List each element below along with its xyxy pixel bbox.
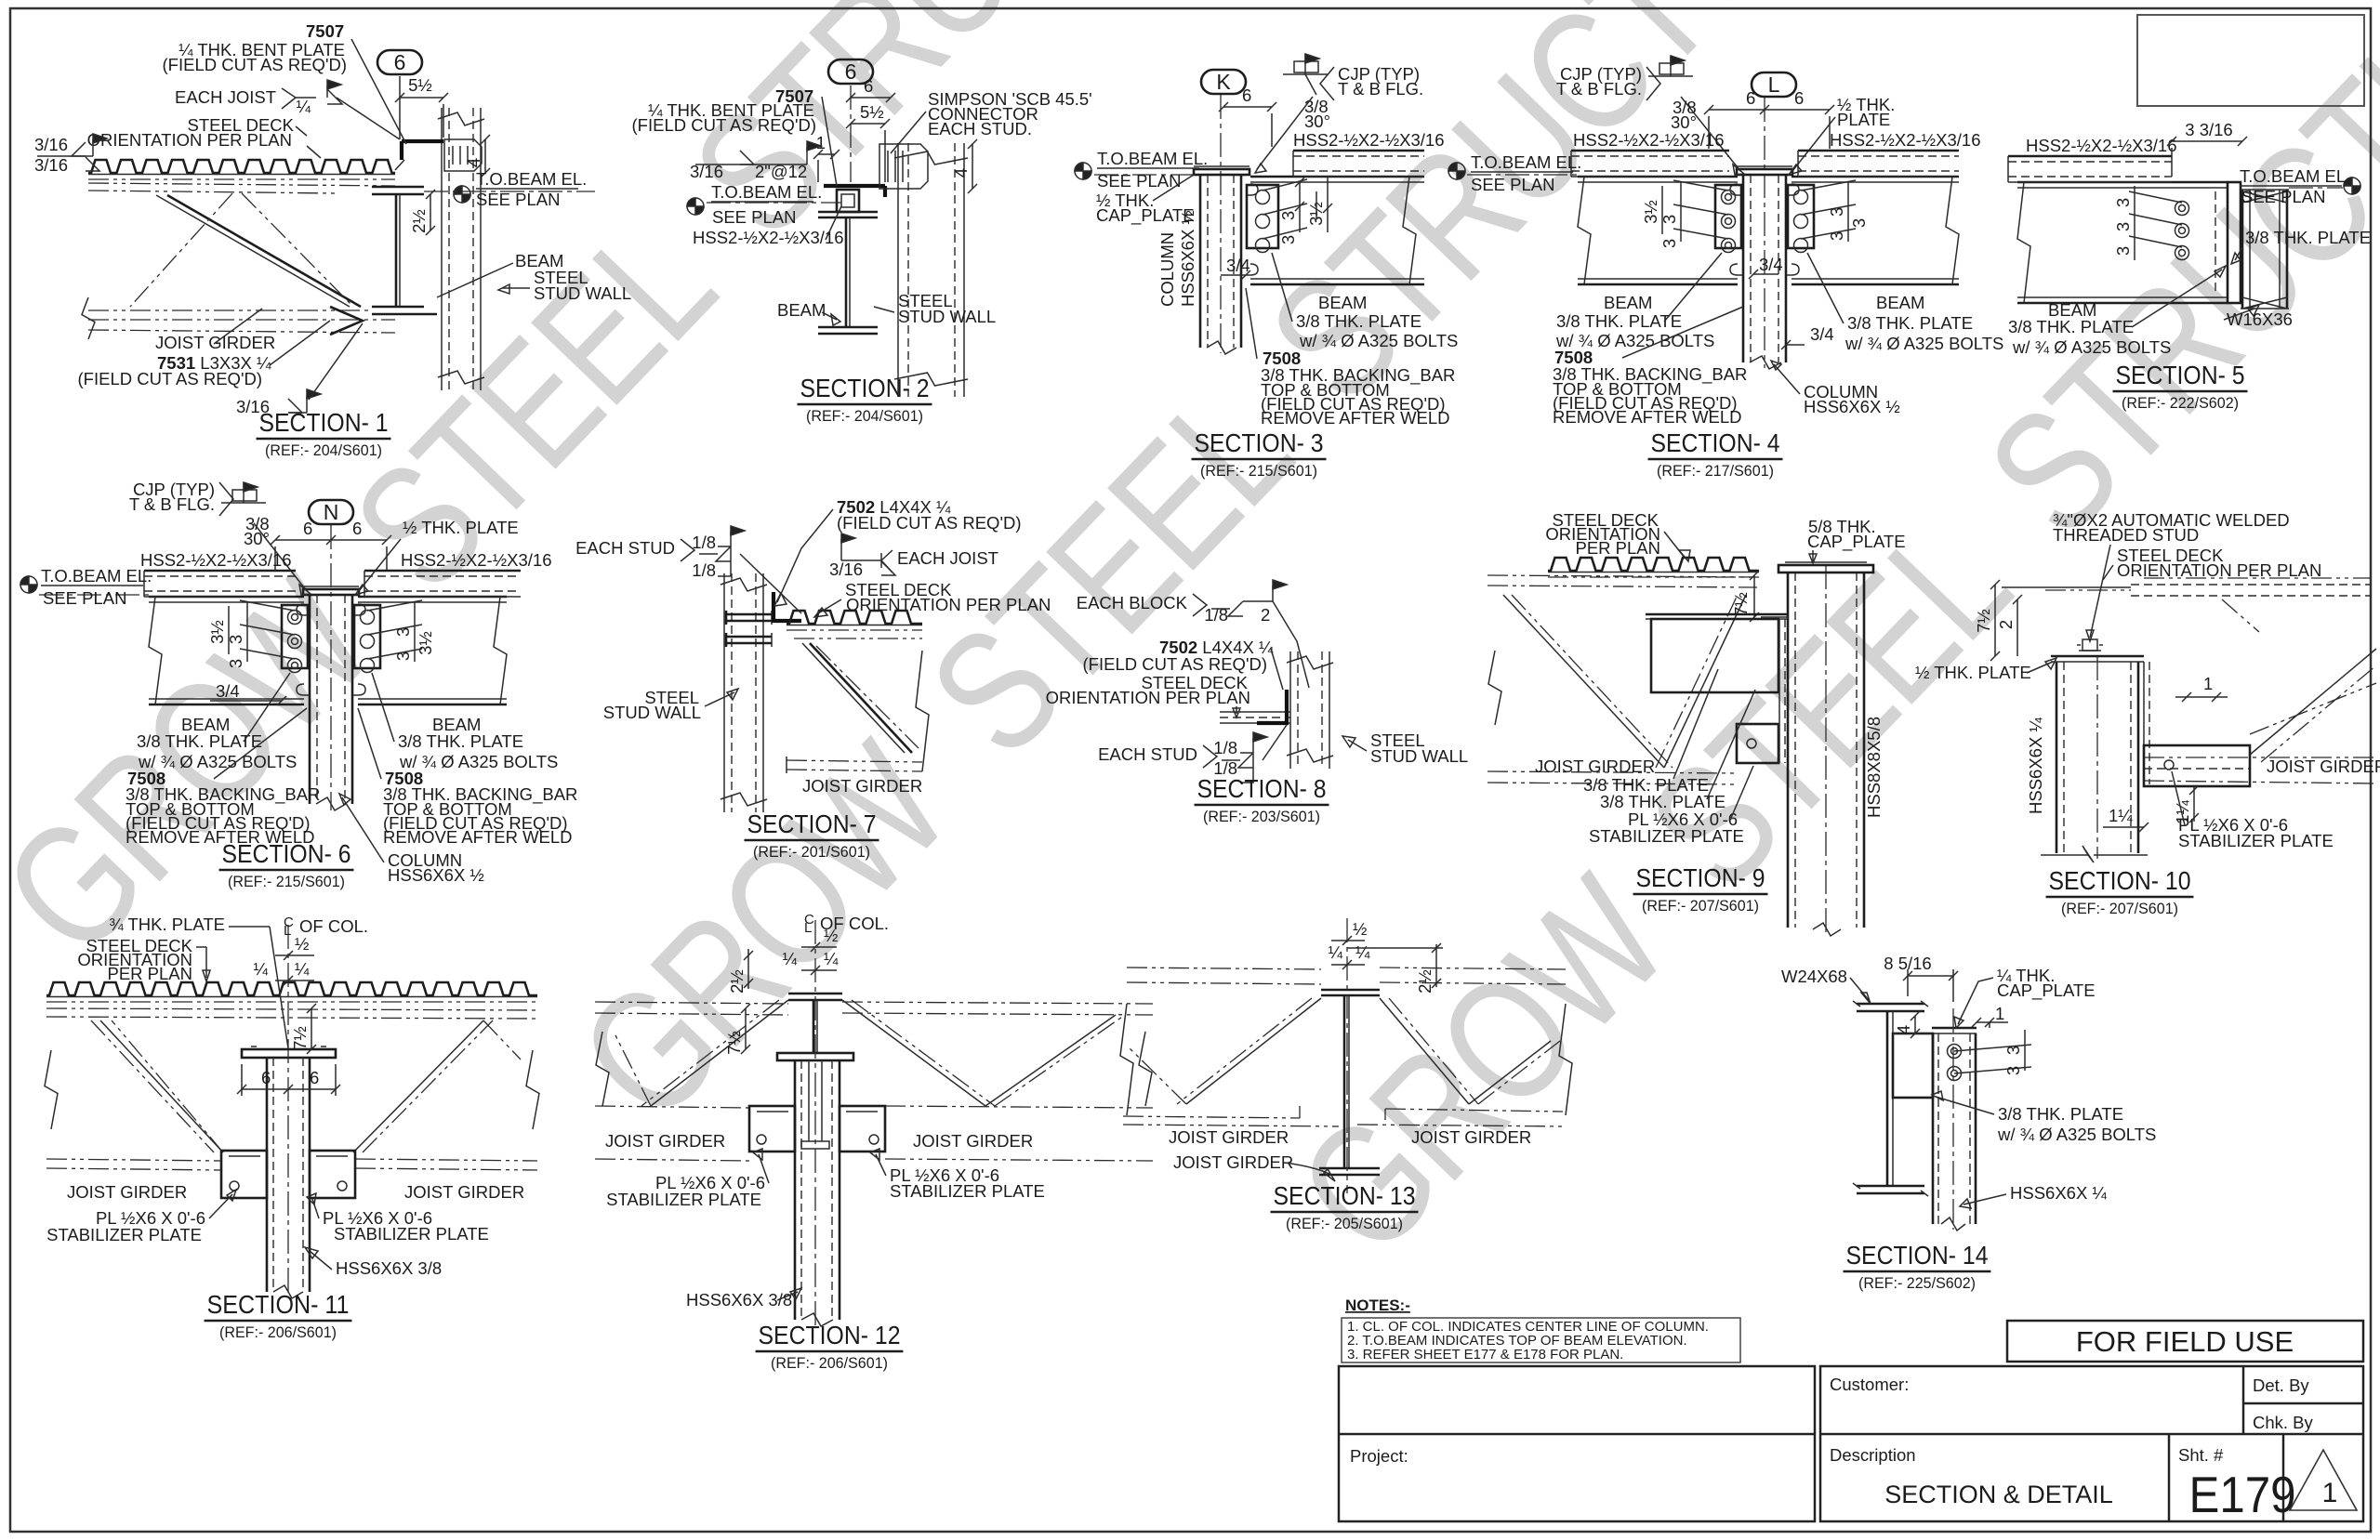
svg-text:3/4: 3/4 — [1810, 324, 1834, 344]
TO beam S2 — [687, 198, 704, 215]
svg-text:Sht. #: Sht. # — [2178, 1445, 2224, 1465]
TO beam S5 — [2344, 178, 2360, 194]
svg-text:PER PLAN: PER PLAN — [107, 964, 192, 983]
svg-text:JOIST GIRDER: JOIST GIRDER — [802, 776, 922, 796]
svg-text:SECTION- 1: SECTION- 1 — [259, 408, 389, 437]
svg-text:3. REFER SHEET E177 & E178 FOR: 3. REFER SHEET E177 & E178 FOR PLAN. — [1347, 1347, 1623, 1362]
svg-text:30°: 30° — [1304, 112, 1330, 131]
weld 2@12 S2 — [695, 164, 807, 165]
svg-text:HSS2-½X2-½X3/16: HSS2-½X2-½X3/16 — [693, 228, 843, 247]
svg-text:w/ ¾ Ø A325 BOLTS: w/ ¾ Ø A325 BOLTS — [2012, 337, 2171, 357]
svg-text:½: ½ — [295, 934, 309, 954]
svg-text:3/8 THK. PLATE: 3/8 THK. PLATE — [1556, 311, 1682, 331]
svg-text:3: 3 — [2003, 1046, 2023, 1055]
svg-text:6: 6 — [261, 1068, 271, 1087]
svg-text:HSS2-½X2-½X3/16: HSS2-½X2-½X3/16 — [401, 550, 551, 570]
dim 4 S1 — [484, 139, 486, 173]
dims 6 6 S4 — [1709, 109, 1830, 111]
svg-text:(REF:- 204/S601): (REF:- 204/S601) — [806, 407, 923, 425]
balloon K S3 — [1201, 70, 1246, 94]
svg-text:BEAM: BEAM — [777, 300, 826, 320]
steel stud wall S2 — [897, 143, 899, 397]
svg-text:Chk. By: Chk. By — [2253, 1413, 2314, 1432]
svg-text:JOIST GIRDER: JOIST GIRDER — [1535, 757, 1655, 776]
svg-text:T.O.BEAM EL.: T.O.BEAM EL. — [1097, 149, 1208, 168]
svg-text:1: 1 — [1995, 1004, 2004, 1023]
cjp weld S6 — [244, 482, 258, 492]
svg-text:2½: 2½ — [727, 969, 747, 994]
bolt plate S3 — [1247, 185, 1278, 248]
svg-text:3: 3 — [2113, 198, 2133, 207]
svg-text:HSS6X6X 3/8: HSS6X6X 3/8 — [686, 1290, 792, 1310]
svg-text:SEE PLAN: SEE PLAN — [476, 190, 561, 209]
bolt dims S4 left — [1673, 180, 1728, 191]
svg-text:REMOVE AFTER WELD: REMOVE AFTER WELD — [1261, 408, 1450, 428]
svg-text:3: 3 — [393, 627, 413, 637]
svg-text:L: L — [804, 920, 812, 936]
TO beam S3 — [1075, 163, 1091, 179]
deck S11 — [46, 982, 537, 995]
svg-text:SECTION- 6: SECTION- 6 — [222, 839, 351, 868]
svg-text:JOIST GIRDER: JOIST GIRDER — [67, 1182, 187, 1202]
svg-text:½ THK. PLATE: ½ THK. PLATE — [1915, 663, 2031, 682]
svg-text:7507: 7507 — [306, 21, 344, 41]
svg-text:T.O.BEAM EL.: T.O.BEAM EL. — [711, 182, 822, 202]
svg-text:FOR FIELD USE: FOR FIELD USE — [2076, 1325, 2294, 1358]
dims S14 — [1907, 969, 1909, 996]
hss rail S5 — [2008, 155, 2172, 158]
svg-text:SECTION- 10: SECTION- 10 — [2049, 866, 2191, 895]
svg-text:HSS2-½X2-½X3/16: HSS2-½X2-½X3/16 — [2026, 136, 2176, 155]
svg-text:STUD WALL: STUD WALL — [1370, 746, 1468, 766]
svg-text:HSS2-½X2-½X3/16: HSS2-½X2-½X3/16 — [140, 550, 291, 570]
svg-text:STUD WALL: STUD WALL — [534, 283, 631, 303]
svg-text:SECTION- 3: SECTION- 3 — [1195, 428, 1324, 457]
svg-text:BEAM: BEAM — [1604, 293, 1652, 312]
svg-text:3/8 THK. PLATE: 3/8 THK. PLATE — [2245, 228, 2371, 247]
stabilizer strip S10 — [2143, 662, 2145, 784]
svg-text:½ THK. PLATE: ½ THK. PLATE — [403, 518, 519, 537]
hss rails S6 — [144, 570, 296, 573]
bolts S14 — [1948, 1045, 1962, 1059]
svg-text:3: 3 — [2113, 246, 2133, 256]
svg-text:HSS6X6X ¼: HSS6X6X ¼ — [2010, 1183, 2107, 1203]
svg-text:3/4: 3/4 — [216, 681, 240, 701]
balloon L S4 — [1752, 72, 1796, 97]
SECTION-8 group — [1046, 580, 1469, 825]
svg-text:¼: ¼ — [1355, 942, 1370, 962]
svg-text:3/16: 3/16 — [690, 162, 723, 181]
svg-text:SECTION & DETAIL: SECTION & DETAIL — [1884, 1481, 2113, 1508]
svg-text:T.O.BEAM EL.: T.O.BEAM EL. — [1471, 152, 1581, 172]
svg-text:Det. By: Det. By — [2253, 1375, 2309, 1395]
dim 6 S3 — [1223, 106, 1272, 108]
svg-text:EACH JOIST: EACH JOIST — [175, 87, 276, 107]
deck edge S8 — [1220, 711, 1290, 713]
cap plate S3 — [1194, 169, 1249, 175]
svg-text:ORIENTATION PER PLAN: ORIENTATION PER PLAN — [846, 595, 1051, 614]
svg-text:T.O.BEAM EL.: T.O.BEAM EL. — [41, 566, 152, 586]
svg-text:1/8: 1/8 — [692, 560, 716, 580]
svg-text:THREADED STUD: THREADED STUD — [2053, 525, 2199, 545]
svg-text:JOIST GIRDER: JOIST GIRDER — [1411, 1127, 1531, 1147]
svg-text:1/8: 1/8 — [1204, 605, 1228, 625]
svg-text:HSS6X6X ¼: HSS6X6X ¼ — [2026, 717, 2045, 814]
threaded stud S10 — [2082, 639, 2097, 651]
bent plate S1 — [402, 139, 443, 143]
dim 6 S2 — [851, 97, 891, 99]
simpson connector S2 — [879, 144, 928, 189]
svg-text:3: 3 — [1849, 218, 1869, 228]
svg-text:30°: 30° — [1671, 112, 1697, 132]
svg-text:3 3/16: 3 3/16 — [2185, 120, 2232, 139]
TO beam S1 — [454, 186, 470, 203]
svg-text:1¼: 1¼ — [2109, 806, 2133, 825]
bolt plates S6 — [282, 605, 308, 668]
for field use stamp — [2007, 1321, 2363, 1362]
svg-text:3/8 THK. PLATE: 3/8 THK. PLATE — [398, 731, 523, 751]
svg-text:PLATE: PLATE — [1837, 110, 1890, 129]
SECTION-1 group — [34, 21, 631, 459]
svg-text:7½: 7½ — [724, 1031, 744, 1055]
svg-text:SECTION- 9: SECTION- 9 — [1636, 863, 1765, 892]
svg-text:3: 3 — [2113, 222, 2133, 231]
svg-text:3½: 3½ — [207, 620, 227, 644]
joist girder S7 — [794, 638, 922, 639]
svg-text:¼: ¼ — [824, 949, 839, 968]
TO beam S6 — [20, 576, 37, 593]
dim 2-1/2 S1 — [430, 194, 431, 230]
svg-text:Description: Description — [1830, 1445, 1916, 1465]
svg-text:SECTION- 14: SECTION- 14 — [1846, 1241, 1989, 1270]
svg-text:SECTION- 8: SECTION- 8 — [1197, 774, 1327, 803]
beam S3 right — [1250, 176, 1424, 178]
svg-text:Project:: Project: — [1350, 1446, 1408, 1466]
svg-text:JOIST GIRDER: JOIST GIRDER — [404, 1182, 524, 1202]
deck S9 — [1548, 558, 1759, 571]
svg-text:REMOVE AFTER WELD: REMOVE AFTER WELD — [383, 827, 573, 847]
break S1 left — [82, 297, 95, 339]
svg-text:3: 3 — [1278, 235, 1298, 244]
svg-text:6: 6 — [303, 519, 312, 538]
girder chords S12 — [595, 1002, 788, 1004]
svg-text:PER PLAN: PER PLAN — [1575, 538, 1660, 558]
girder chords S11 — [46, 1008, 537, 1010]
SECTION-5 group — [2008, 120, 2371, 412]
svg-text:E179: E179 — [2189, 1466, 2296, 1523]
svg-text:(FIELD CUT AS REQ'D): (FIELD CUT AS REQ'D) — [163, 55, 348, 74]
svg-text:(REF:- 207/S601): (REF:- 207/S601) — [2061, 900, 2178, 917]
svg-text:ORIENTATION PER PLAN: ORIENTATION PER PLAN — [87, 130, 292, 150]
svg-text:SECTION- 7: SECTION- 7 — [747, 809, 877, 838]
column S12 — [794, 1060, 797, 1320]
svg-text:w/ ¾ Ø A325 BOLTS: w/ ¾ Ø A325 BOLTS — [1844, 334, 2003, 353]
cap plate S11 — [242, 1049, 336, 1058]
svg-text:OF COL.: OF COL. — [299, 916, 368, 936]
cap plate S6 — [303, 589, 359, 595]
bolt dims S4 right — [1801, 180, 1856, 191]
svg-text:3/4: 3/4 — [1759, 255, 1783, 274]
svg-text:4: 4 — [464, 158, 483, 167]
joist girder chords S1 — [88, 183, 395, 186]
svg-text:3: 3 — [226, 659, 245, 668]
column S11 — [266, 1058, 269, 1292]
girder diagonals S11 — [100, 1020, 223, 1152]
svg-text:T & B FLG.: T & B FLG. — [129, 494, 215, 514]
weld curls S4 — [1730, 184, 1742, 195]
svg-text:1: 1 — [2322, 1478, 2338, 1508]
SECTION-14 group — [1781, 954, 2156, 1292]
svg-text:HSS2-½X2-½X3/16: HSS2-½X2-½X3/16 — [1830, 130, 1980, 150]
svg-text:3/8 THK. PLATE: 3/8 THK. PLATE — [1847, 313, 1973, 333]
svg-text:6: 6 — [1242, 86, 1251, 105]
svg-text:EACH STUD.: EACH STUD. — [928, 119, 1032, 138]
svg-text:6: 6 — [394, 50, 406, 74]
svg-text:JOIST GIRDER: JOIST GIRDER — [1169, 1127, 1289, 1147]
svg-text:1/8: 1/8 — [1213, 738, 1237, 757]
svg-text:(FIELD CUT AS REQ'D): (FIELD CUT AS REQ'D) — [837, 513, 1022, 533]
svg-text:BEAM: BEAM — [1318, 293, 1367, 312]
svg-text:(FIELD CUT AS REQ'D): (FIELD CUT AS REQ'D) — [632, 115, 817, 135]
svg-text:HSS6X6X ½: HSS6X6X ½ — [1178, 210, 1197, 307]
bolt dims S6 left — [240, 600, 295, 611]
svg-text:6: 6 — [845, 59, 857, 84]
title block — [1339, 1366, 2363, 1521]
dims S10 — [1994, 585, 1996, 656]
hss2.5 square S2 — [837, 190, 859, 212]
svg-text:3½: 3½ — [1641, 200, 1660, 224]
svg-text:3½: 3½ — [416, 631, 435, 655]
svg-text:¼: ¼ — [1329, 942, 1343, 962]
svg-text:8 5/16: 8 5/16 — [1884, 954, 1931, 973]
steel stud wall S1 — [441, 108, 443, 390]
svg-text:T.O.BEAM EL.: T.O.BEAM EL. — [476, 169, 587, 189]
svg-text:T.O.BEAM EL.: T.O.BEAM EL. — [2240, 166, 2350, 186]
svg-text:JOIST GIRDER: JOIST GIRDER — [913, 1131, 1033, 1151]
svg-text:SEE PLAN: SEE PLAN — [43, 588, 127, 608]
svg-text:7½: 7½ — [1974, 609, 1993, 633]
svg-text:¼: ¼ — [297, 97, 311, 116]
svg-text:¼: ¼ — [295, 959, 310, 979]
simpson connector S1 — [444, 139, 482, 171]
balloon 6 S1 — [377, 50, 422, 74]
hss rail S3 — [1293, 150, 1424, 152]
SECTION-7 group — [575, 497, 1051, 861]
svg-text:N: N — [324, 500, 339, 524]
svg-text:3: 3 — [1827, 231, 1846, 241]
beam S5 — [2017, 181, 2228, 184]
svg-text:2: 2 — [1996, 620, 2016, 629]
W16 column S5 — [2241, 190, 2244, 309]
svg-text:JOIST GIRDER: JOIST GIRDER — [1173, 1152, 1293, 1172]
dim 5-1/2 S2 — [851, 123, 885, 125]
svg-text:SECTION- 2: SECTION- 2 — [800, 374, 930, 402]
column S4 — [1742, 175, 1745, 362]
girder chords S13 — [1127, 967, 1321, 969]
joist girder S10 right — [2144, 757, 2376, 758]
svg-text:EACH BLOCK: EACH BLOCK — [1077, 593, 1188, 612]
column HSS8X8 S9 — [1787, 573, 1790, 928]
svg-text:L: L — [1768, 72, 1780, 97]
svg-text:3: 3 — [393, 652, 413, 661]
bolt dims S5 — [2129, 191, 2182, 203]
svg-text:HSS2-½X2-½X3/16: HSS2-½X2-½X3/16 — [1293, 130, 1444, 150]
joist girder diagonals S1 — [167, 195, 361, 307]
svg-text:(REF:- 204/S601): (REF:- 204/S601) — [265, 441, 382, 459]
stabilizer S9 — [1646, 613, 1788, 616]
svg-text:1: 1 — [816, 133, 826, 152]
svg-text:2: 2 — [1261, 605, 1270, 625]
svg-text:6: 6 — [864, 76, 873, 96]
angle 7502 S7 — [772, 592, 775, 623]
balloon 6 S2 — [828, 59, 873, 84]
svg-text:(REF:- 203/S601): (REF:- 203/S601) — [1203, 808, 1320, 825]
svg-text:(REF:- 206/S601): (REF:- 206/S601) — [771, 1354, 888, 1372]
svg-text:w/ ¾ Ø A325 BOLTS: w/ ¾ Ø A325 BOLTS — [1299, 331, 1458, 350]
svg-text:SECTION- 13: SECTION- 13 — [1274, 1181, 1416, 1210]
svg-text:STUD WALL: STUD WALL — [898, 307, 996, 326]
svg-text:3/4: 3/4 — [1226, 256, 1250, 275]
svg-text:1: 1 — [2203, 674, 2213, 693]
deck band S10 — [2131, 584, 2371, 586]
stud wall S8 — [1289, 652, 1291, 769]
SECTION-2 group — [632, 59, 1092, 425]
svg-text:HSS6X6X ½: HSS6X6X ½ — [388, 865, 484, 885]
svg-text:SEE PLAN: SEE PLAN — [1097, 171, 1182, 191]
dims 1-1/4 S10 — [2193, 786, 2195, 822]
svg-text:1/8: 1/8 — [692, 533, 716, 552]
beam tee S12 — [788, 993, 842, 995]
girder diagonals S10 — [2250, 649, 2376, 755]
svg-text:3: 3 — [1659, 239, 1679, 248]
bolts S5 — [2175, 202, 2189, 216]
svg-text:STABILIZER PLATE: STABILIZER PLATE — [1589, 826, 1744, 846]
joist girder S9 — [1487, 575, 1757, 577]
svg-text:4: 4 — [1894, 1025, 1913, 1034]
svg-text:HSS2-½X2-½X3/16: HSS2-½X2-½X3/16 — [1573, 130, 1724, 150]
TO beam S4 — [1448, 163, 1465, 179]
cjp weld S3 — [1305, 54, 1319, 63]
dims 6 6 S6 — [275, 539, 387, 541]
dim 4 S2 — [972, 144, 973, 189]
cjp weld S4 — [1671, 56, 1685, 65]
SECTION-10 group — [1915, 510, 2380, 917]
svg-text:EACH STUD: EACH STUD — [575, 538, 675, 558]
SECTION-3 group — [1075, 54, 1458, 480]
svg-text:3/8 THK. PLATE: 3/8 THK. PLATE — [1296, 311, 1421, 331]
dim 5-1/2 S1 — [400, 97, 443, 99]
svg-text:3/8 THK. PLATE: 3/8 THK. PLATE — [2008, 317, 2134, 336]
svg-text:5½: 5½ — [408, 75, 432, 95]
svg-text:REMOVE AFTER WELD: REMOVE AFTER WELD — [1553, 407, 1742, 427]
column S14 — [1932, 1033, 1935, 1224]
angle 7502 S8 — [1257, 690, 1287, 723]
top-right blank box — [2137, 15, 2364, 106]
svg-text:W16X36: W16X36 — [2227, 309, 2293, 329]
bolt plates S4 — [1715, 185, 1741, 248]
svg-text:W24X68: W24X68 — [1781, 967, 1847, 986]
svg-text:SECTION- 11: SECTION- 11 — [207, 1290, 350, 1319]
svg-text:¼: ¼ — [783, 949, 798, 968]
svg-text:STABILIZER PLATE: STABILIZER PLATE — [46, 1225, 202, 1244]
svg-text:HSS6X6X 3/8: HSS6X6X 3/8 — [336, 1258, 442, 1278]
bolt dims S3 — [1263, 179, 1307, 191]
stabilizer plates S12 — [749, 1106, 795, 1152]
beam tee S2 — [818, 211, 878, 214]
svg-text:SEE PLAN: SEE PLAN — [712, 207, 797, 227]
beam I S1 — [372, 186, 424, 189]
cap plate S9 — [1778, 565, 1873, 573]
svg-text:(FIELD CUT AS REQ'D): (FIELD CUT AS REQ'D) — [1083, 654, 1268, 674]
svg-text:NOTES:-: NOTES:- — [1345, 1296, 1410, 1314]
bolt dims S6 right — [367, 600, 422, 611]
svg-text:2"@12: 2"@12 — [755, 162, 807, 181]
svg-text:3/16: 3/16 — [34, 135, 68, 154]
svg-text:ORIENTATION PER PLAN: ORIENTATION PER PLAN — [1046, 688, 1250, 707]
SECTION-4 group — [1448, 56, 2003, 480]
SECTION-6 group — [20, 480, 577, 890]
beams S6 — [149, 596, 304, 599]
stud wall S7 — [723, 573, 725, 812]
cap plate S12 — [777, 1053, 853, 1060]
end plate S5 — [2228, 182, 2241, 303]
svg-text:(REF:- 215/S601): (REF:- 215/S601) — [228, 873, 345, 890]
girder diagonals S12 — [651, 1000, 788, 1106]
stabilizer plates S11 — [221, 1151, 267, 1198]
svg-text:T & B FLG.: T & B FLG. — [1556, 79, 1642, 99]
svg-text:7½: 7½ — [290, 1026, 310, 1050]
girder diagonals S13 — [1186, 998, 1321, 1104]
svg-text:T & B FLG.: T & B FLG. — [1338, 79, 1423, 99]
dim 3-3/16 S5 — [2172, 140, 2242, 142]
svg-text:JOIST GIRDER: JOIST GIRDER — [2267, 757, 2380, 776]
deck S7 — [787, 611, 922, 624]
svg-text:STUD WALL: STUD WALL — [603, 703, 701, 722]
svg-text:3/16: 3/16 — [829, 559, 863, 579]
svg-text:ORIENTATION PER PLAN: ORIENTATION PER PLAN — [2117, 560, 2321, 580]
cap plate S10 — [2051, 655, 2144, 658]
SECTION-9 group — [1487, 510, 1906, 936]
balloon N S6 — [309, 500, 353, 524]
SECTION-12 group — [595, 912, 1153, 1372]
svg-text:BEAM: BEAM — [1876, 293, 1924, 312]
column HSS6X6 S10 — [2056, 662, 2058, 853]
svg-text:(REF:- 207/S601): (REF:- 207/S601) — [1642, 897, 1759, 915]
svg-text:(REF:- 201/S601): (REF:- 201/S601) — [753, 843, 870, 861]
svg-text:Customer:: Customer: — [1830, 1375, 1909, 1394]
svg-text:4: 4 — [951, 168, 971, 178]
beam tee S13 — [1321, 989, 1380, 992]
bottom angle 7531 S1 — [330, 307, 363, 335]
svg-text:HSS8X8X5/8: HSS8X8X5/8 — [1864, 717, 1884, 818]
steel deck S1 — [88, 160, 395, 173]
svg-text:5½: 5½ — [860, 102, 884, 122]
W24 beam S14 — [1857, 1003, 1924, 1006]
svg-text:CAP_PLATE: CAP_PLATE — [1807, 532, 1906, 552]
svg-text:STABILIZER PLATE: STABILIZER PLATE — [606, 1190, 761, 1209]
svg-text:3: 3 — [1278, 211, 1298, 220]
svg-text:3/8 THK. PLATE: 3/8 THK. PLATE — [1998, 1104, 2123, 1124]
svg-text:6: 6 — [1794, 88, 1804, 108]
svg-text:COLUMN: COLUMN — [1157, 232, 1177, 307]
SECTION-11 group — [45, 915, 539, 1341]
svg-text:(REF:- 215/S601): (REF:- 215/S601) — [1200, 462, 1317, 480]
svg-text:EACH JOIST: EACH JOIST — [897, 548, 998, 568]
svg-text:3/16: 3/16 — [34, 155, 68, 175]
weld curls S6 — [297, 604, 309, 615]
svg-text:2½: 2½ — [1415, 969, 1435, 994]
beams S4 — [1578, 176, 1738, 178]
